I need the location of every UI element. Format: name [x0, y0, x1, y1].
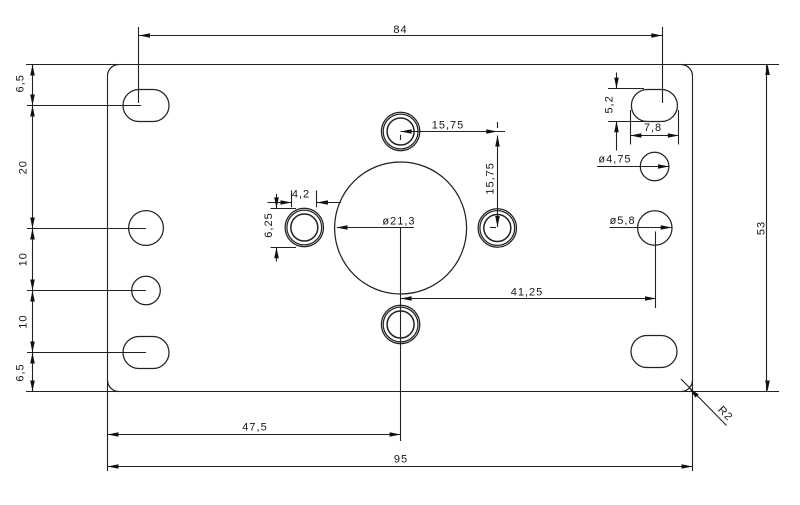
- svg-text:53: 53: [756, 221, 768, 235]
- svg-text:5,2: 5,2: [604, 95, 616, 113]
- svg-text:6,5: 6,5: [15, 363, 27, 381]
- svg-text:ø5,8: ø5,8: [610, 215, 636, 227]
- svg-text:15,75: 15,75: [432, 119, 465, 131]
- svg-text:47,5: 47,5: [242, 421, 267, 433]
- svg-text:ø4,75: ø4,75: [598, 154, 631, 166]
- svg-text:15,75: 15,75: [485, 162, 497, 195]
- svg-text:41,25: 41,25: [511, 286, 544, 298]
- svg-text:6,5: 6,5: [15, 74, 27, 92]
- svg-text:4,2: 4,2: [292, 189, 310, 201]
- svg-text:20: 20: [18, 160, 30, 174]
- svg-text:95: 95: [394, 453, 408, 465]
- svg-text:ø21,3: ø21,3: [382, 215, 415, 227]
- svg-text:10: 10: [18, 314, 30, 328]
- svg-text:6,25: 6,25: [263, 212, 275, 237]
- svg-text:10: 10: [18, 252, 30, 266]
- svg-text:84: 84: [393, 24, 407, 36]
- svg-text:7,8: 7,8: [644, 122, 662, 134]
